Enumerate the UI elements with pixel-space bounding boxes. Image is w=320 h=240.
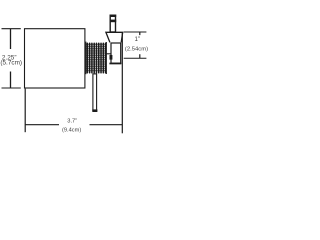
svg-text:1”: 1” (134, 36, 140, 43)
candle cup trapezoid (106, 32, 123, 42)
left dim vertical (10, 29, 12, 88)
bracket arm (106, 53, 110, 55)
socket box (111, 43, 121, 63)
box bottom thick (109, 63, 121, 65)
right dim extension lines (124, 32, 147, 58)
ribbed fitter block (86, 44, 106, 70)
left dim ticks (2, 29, 21, 88)
bottom dim line (25, 124, 122, 126)
svg-text:(2.54cm): (2.54cm) (125, 46, 148, 52)
svg-text:(5.7cm): (5.7cm) (0, 59, 22, 66)
bracket block (110, 55, 113, 60)
bottom dim witness lines (24, 89, 26, 133)
backplate square (25, 29, 85, 88)
stem (93, 74, 97, 111)
candelabra socket (110, 15, 115, 32)
svg-text:(9.4cm): (9.4cm) (62, 128, 81, 134)
stem bottom cap (92, 109, 97, 112)
right dim stubs (139, 32, 141, 58)
svg-text:3.7”: 3.7” (67, 119, 77, 125)
